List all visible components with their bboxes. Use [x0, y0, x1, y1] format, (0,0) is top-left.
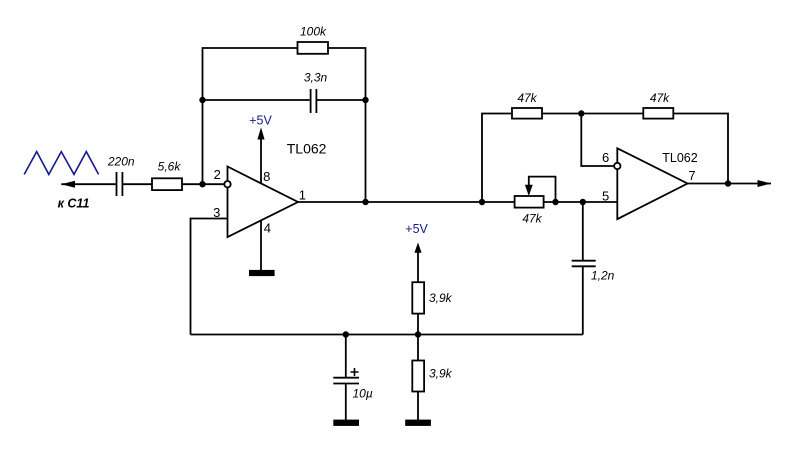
svg-text:47k: 47k [517, 91, 537, 105]
+5V arrow U1 [257, 127, 264, 139]
wire +5V to R3,9k upper [417, 246, 419, 283]
resistor 100k [298, 42, 329, 54]
junction pot wiper [552, 199, 558, 205]
resistor 3,9k lower [412, 361, 424, 392]
junction right cap net [362, 97, 368, 103]
wire R to pin 2 [182, 183, 225, 185]
wire rail to R3,9k lower [417, 335, 419, 361]
junction at x482 [479, 199, 485, 205]
output arrow [758, 180, 772, 187]
ground 10u [333, 420, 359, 426]
capacitor 10u plates [333, 377, 359, 379]
input waveform symbol [24, 152, 98, 175]
resistor 5,6k [152, 178, 182, 190]
pin 2 inverting bubble [224, 181, 230, 187]
pin 8 wire (V+) [260, 131, 262, 184]
svg-text:TL062: TL062 [287, 140, 327, 156]
wire junction down to pin 6 [581, 114, 614, 167]
ground R lower [405, 420, 431, 426]
op-amp U2 TL062 [617, 148, 687, 219]
svg-text:3,3n: 3,3n [304, 71, 328, 85]
10u cap branch wire [345, 335, 347, 378]
svg-text:TL062: TL062 [662, 151, 697, 165]
wire 10u to ground [345, 384, 347, 421]
capacitor 3,3n [310, 89, 312, 113]
svg-text:220n: 220n [107, 155, 135, 169]
pot wiper [529, 177, 556, 202]
junction rail/R [415, 331, 421, 337]
output wire op1 to pot [298, 201, 515, 203]
wire 47kA to junction [542, 113, 643, 115]
ground U1 [249, 270, 275, 276]
junction top [578, 110, 584, 116]
svg-text:8: 8 [263, 169, 270, 184]
wire R lower to ground [417, 392, 419, 421]
svg-text:1,2n: 1,2n [591, 268, 615, 282]
op-amp U1 TL062 [228, 167, 299, 238]
resistor 3,9k upper [412, 282, 424, 313]
feedback top right wire [328, 48, 366, 202]
svg-text:7: 7 [688, 168, 695, 183]
wire 1,2n to rail [582, 266, 584, 334]
output wire op2 [688, 183, 772, 185]
svg-text:3,9k: 3,9k [429, 291, 453, 305]
svg-text:100k: 100k [300, 25, 327, 39]
svg-text:2: 2 [214, 167, 221, 182]
svg-text:47k: 47k [650, 91, 670, 105]
junction left cap net [199, 97, 205, 103]
plus sign 10u [351, 368, 359, 376]
wire input to C 220n [61, 183, 115, 185]
svg-text:3,9k: 3,9k [429, 367, 453, 381]
top-right left vertical [482, 114, 512, 203]
junction output [725, 180, 731, 186]
svg-text:+5V: +5V [249, 113, 272, 127]
pin 6 bubble [614, 163, 620, 169]
svg-text:+5V: +5V [405, 222, 428, 236]
svg-text:3: 3 [213, 205, 220, 220]
pin 4 wire [260, 220, 262, 270]
bottom rail [191, 334, 583, 336]
feedback cap wire right [316, 99, 365, 101]
junction 1,2n [580, 199, 586, 205]
wire pot to pin5 [543, 201, 617, 203]
feedback cap wire left [203, 99, 310, 101]
+5V arrow mid [414, 243, 421, 253]
svg-text:47k: 47k [522, 212, 542, 226]
potentiometer 47k [515, 196, 544, 208]
pin 3 wire [191, 219, 228, 335]
svg-text:4: 4 [264, 220, 271, 235]
junction node at pin2 net [199, 181, 205, 187]
wire R upper to rail [417, 314, 419, 335]
wire 47kB to right vertical [673, 114, 728, 184]
wire C to R 5,6k [122, 183, 152, 185]
resistor 47k B [643, 108, 673, 119]
resistor 47k A [512, 108, 542, 119]
svg-text:5,6k: 5,6k [158, 160, 182, 174]
svg-text:1: 1 [299, 188, 306, 203]
input arrow (to C11) [61, 181, 75, 188]
capacitor 220n [116, 172, 118, 196]
junction 10u [343, 331, 349, 337]
svg-text:к C11: к C11 [58, 197, 90, 211]
svg-text:6: 6 [602, 150, 609, 165]
junction output/feedback [362, 199, 368, 205]
feedback left vertical wire [203, 48, 298, 184]
svg-text:5: 5 [602, 189, 609, 204]
svg-text:10µ: 10µ [353, 386, 373, 400]
wire to cap 1,2n [582, 202, 584, 260]
capacitor 1,2n [572, 260, 596, 262]
